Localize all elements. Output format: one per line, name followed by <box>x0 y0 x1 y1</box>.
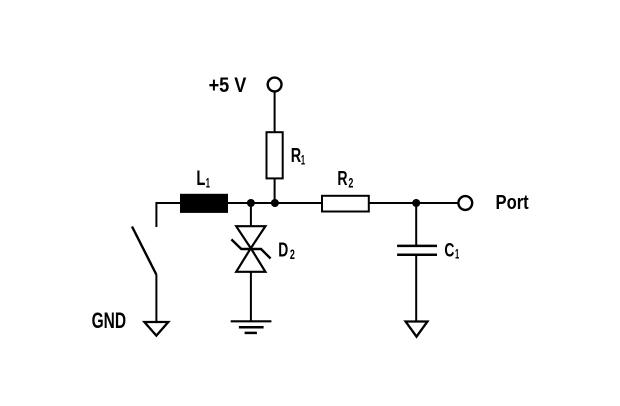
diode D2 bottom triangle <box>236 248 265 272</box>
wire <box>274 91 276 133</box>
resistor R2 <box>322 196 369 212</box>
junction dot <box>412 199 420 207</box>
svg-text:1: 1 <box>206 175 210 191</box>
svg-text:R: R <box>291 145 302 167</box>
svg-text:+5 V: +5 V <box>209 73 247 97</box>
terminal Port <box>458 196 472 210</box>
switch blade <box>132 227 156 275</box>
ground triangle at C1 <box>406 322 428 337</box>
resistor R1 <box>267 132 283 178</box>
wire <box>250 203 252 227</box>
svg-text:L: L <box>196 166 205 190</box>
label R1 <box>291 145 305 167</box>
label L1 <box>196 166 210 190</box>
label C1 <box>444 239 459 261</box>
wire <box>415 203 417 246</box>
wire <box>250 272 252 322</box>
wire <box>274 178 276 203</box>
ground symbol (3 bars) <box>231 321 272 333</box>
svg-text:GND: GND <box>92 308 127 333</box>
inductor L1 <box>180 194 228 213</box>
terminal +5V <box>268 78 282 92</box>
wire main horizontal <box>156 202 458 204</box>
svg-text:R: R <box>337 168 348 190</box>
wire <box>415 255 417 322</box>
wire switch stub <box>156 203 157 227</box>
svg-text:D: D <box>278 240 288 262</box>
label D2 <box>278 240 295 262</box>
wire <box>370 202 458 204</box>
svg-text:1: 1 <box>455 246 459 262</box>
label R2 <box>337 168 353 190</box>
wire <box>155 275 157 323</box>
ground GND triangle <box>144 322 168 336</box>
svg-text:2: 2 <box>290 246 295 262</box>
svg-text:C: C <box>444 239 454 261</box>
junction dot <box>271 199 279 207</box>
diode D2 top triangle <box>236 226 265 248</box>
svg-text:1: 1 <box>301 151 305 167</box>
svg-text:Port: Port <box>496 192 529 214</box>
diode D2 zener bar <box>231 239 270 258</box>
capacitor C1 plates <box>397 246 437 255</box>
svg-text:2: 2 <box>348 175 353 191</box>
junction dot <box>247 199 255 207</box>
